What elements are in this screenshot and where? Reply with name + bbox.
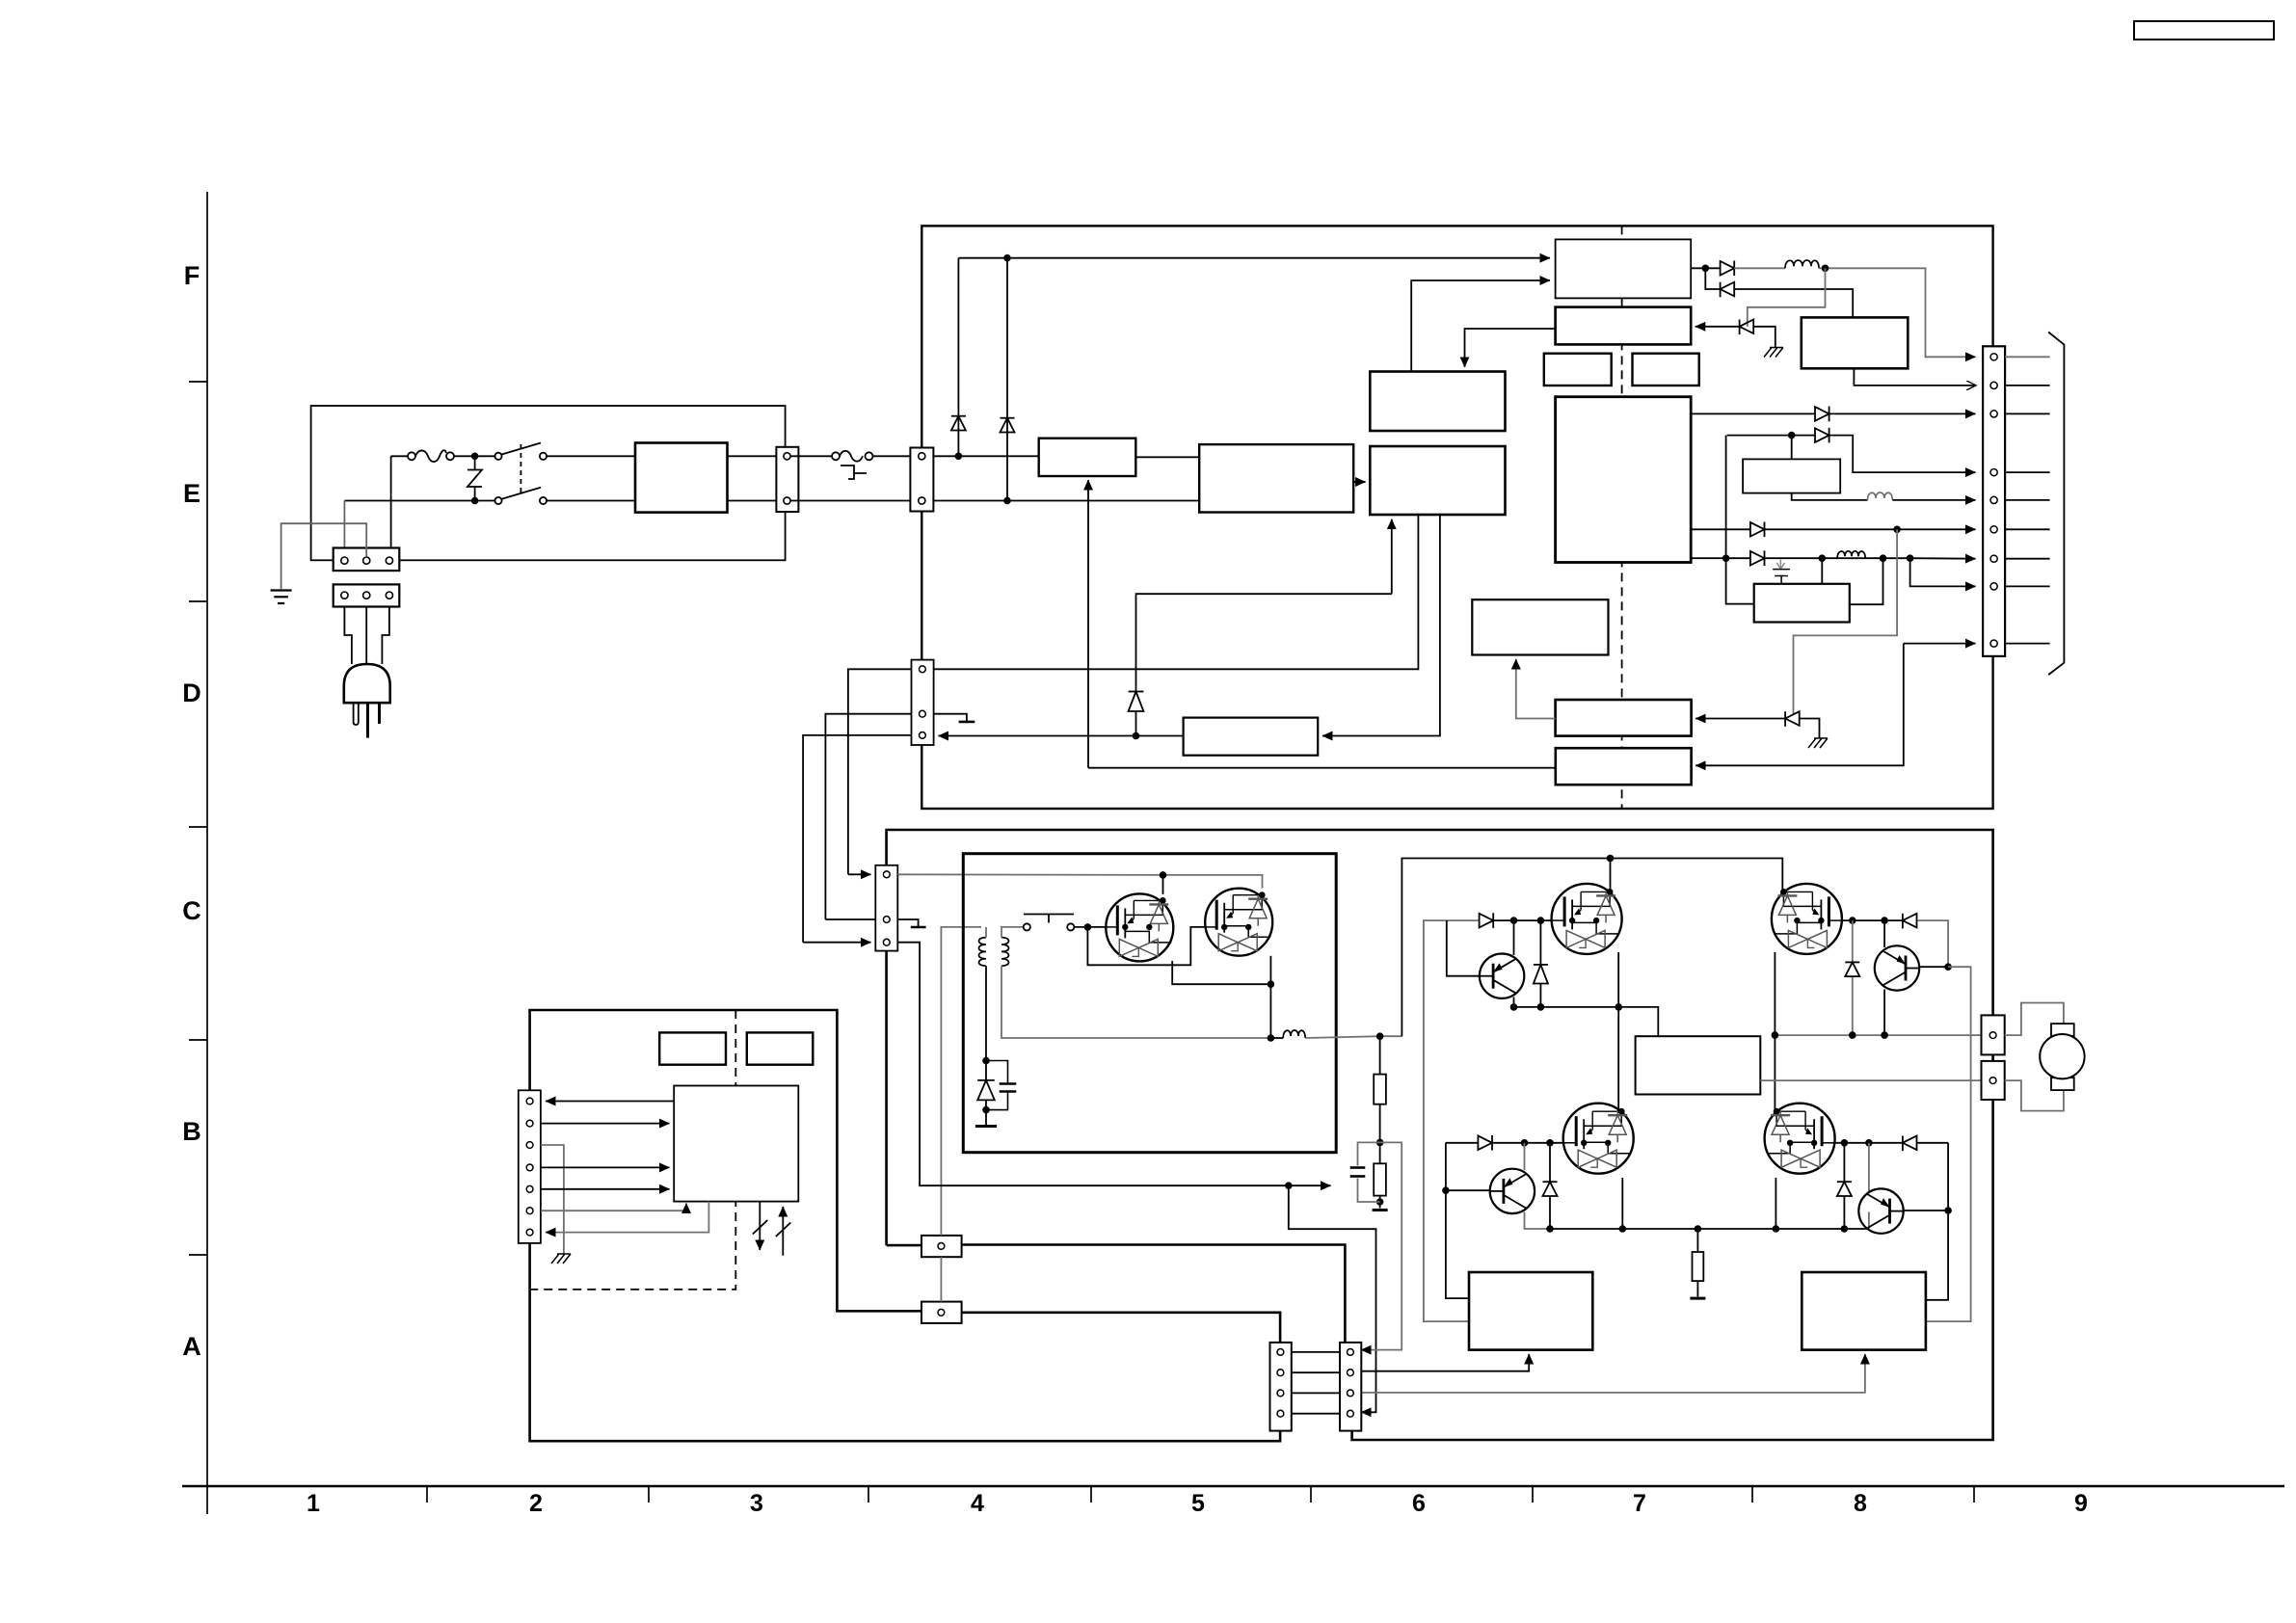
svg-text:8: 8 bbox=[1854, 1490, 1867, 1517]
wire R2 to gnd bbox=[1379, 1196, 1381, 1209]
chassis ground g3 bbox=[551, 1254, 571, 1264]
motor block box bbox=[1636, 1036, 1761, 1094]
switch S1b bbox=[494, 488, 547, 504]
box V (right top thick box) bbox=[1802, 317, 1909, 368]
antisat diode D14 bbox=[1543, 1143, 1558, 1229]
wire node A gray right to feedback bbox=[1361, 1142, 1402, 1349]
small box K2 bbox=[747, 1032, 814, 1064]
diode D19 (up) on feedback bbox=[1129, 692, 1144, 712]
wire left phase rail bbox=[1514, 1007, 1659, 1036]
node dot BL base bbox=[1442, 1186, 1450, 1194]
connector C1 bbox=[921, 1236, 962, 1257]
wire filter to J1 bottom bbox=[728, 500, 785, 502]
wire rail to B+ riser gray bbox=[1305, 1036, 1402, 1038]
wire box X right riser bbox=[1850, 558, 1883, 604]
motor brush top bbox=[2051, 1024, 2074, 1036]
wire J1 to J3 bottom bbox=[790, 500, 910, 502]
control board outline bbox=[530, 1010, 1281, 1441]
wire conn row3 to right driver arrow gray bbox=[1358, 1354, 1865, 1393]
node dot feedback/row junction bbox=[1133, 732, 1140, 740]
connector CN3 bbox=[1983, 346, 2005, 656]
node dot gate node bbox=[1084, 923, 1092, 931]
wire B+ rail bbox=[1611, 859, 1783, 894]
box B (drive B) bbox=[1556, 748, 1692, 785]
wire gate row top-left bbox=[1493, 919, 1551, 921]
svg-text:E: E bbox=[183, 479, 200, 508]
wire PFC top rail bbox=[958, 257, 1550, 259]
switch gang dashed link bbox=[520, 444, 521, 495]
wire Q7 drain drop bbox=[1821, 558, 1823, 584]
4pin connector right bbox=[1340, 1343, 1361, 1431]
wire earth gray bbox=[281, 523, 367, 589]
wire CN4 pin1 gray to FET drains bbox=[897, 874, 1262, 888]
box C (control upper-left) bbox=[1370, 372, 1505, 432]
bottom driver box left bbox=[1469, 1272, 1592, 1350]
plug prong left bbox=[354, 703, 359, 725]
wire D4 branch bbox=[1705, 268, 1720, 289]
wire CN2 pin3 to plug bbox=[382, 607, 389, 665]
line filter block bbox=[635, 443, 728, 513]
node dot D2 top bbox=[1003, 254, 1011, 262]
wire motor loop bottom gray bbox=[2005, 1080, 2064, 1111]
wire gate row bottom-left bbox=[1492, 1142, 1562, 1144]
wire box A arrow from D10 bbox=[1695, 718, 1785, 720]
resistor R3 shunt bbox=[1693, 1252, 1704, 1281]
gnd bar stub J2 bbox=[959, 721, 975, 724]
row tick F/E bbox=[189, 381, 207, 383]
wire B+ riser bbox=[1402, 859, 1610, 1037]
node dot phase TL e bbox=[1510, 1003, 1518, 1011]
node dot row6 bbox=[1893, 526, 1901, 534]
node dot row7 after L3 bbox=[1880, 554, 1887, 562]
wire R1 to R2 bbox=[1379, 1104, 1381, 1164]
wires between 4pin connectors bbox=[1292, 1352, 1340, 1414]
wire shunt top bbox=[1696, 1229, 1698, 1252]
wire right source rail to motor pin1 bbox=[1775, 1034, 1981, 1036]
node dot BR base bbox=[1944, 1207, 1952, 1214]
wire J2 pin2 stub bbox=[934, 714, 967, 722]
wire conn row9 bbox=[1904, 643, 1976, 645]
connector J2 (psu lower-left) bbox=[912, 660, 934, 745]
node dot bottom varistor bbox=[471, 497, 479, 505]
wire CN2 pin1 to plug bbox=[344, 607, 352, 665]
wire filter to J1 top bbox=[728, 455, 785, 457]
row tick D/C bbox=[189, 826, 207, 828]
wire TR1 right top lead to switch gray bbox=[1001, 927, 1024, 938]
mosfet Q1 (inner converter left) bbox=[1106, 893, 1173, 961]
4pin connector left bbox=[1270, 1343, 1292, 1431]
wire row7 riser bbox=[1725, 436, 1727, 559]
node dot TL antisat bbox=[1537, 917, 1545, 924]
wire long box to connector arrow bbox=[939, 735, 1184, 737]
cable brace bbox=[2048, 333, 2064, 676]
wire T2 to box C arrow bbox=[1465, 329, 1556, 367]
driver board outline bbox=[887, 830, 1993, 1440]
box W (right mid regulator) bbox=[1743, 459, 1840, 492]
gnd bar shunt bbox=[1690, 1297, 1705, 1300]
antisat diode D16 bbox=[1845, 920, 1859, 1035]
wire CN4 pin2 stub bbox=[897, 919, 918, 927]
row tick B/A bbox=[189, 1254, 207, 1256]
plug prong right bbox=[378, 703, 381, 724]
wire bottom-left gate row bbox=[1446, 1142, 1479, 1144]
col tick 1/2 bbox=[426, 1486, 428, 1503]
node dot TL collector bbox=[1510, 917, 1518, 924]
inner converter box bbox=[963, 854, 1336, 1153]
diode D15 left bbox=[1903, 914, 1917, 929]
row tick C/B bbox=[189, 1039, 207, 1041]
wire W top drop bbox=[1791, 436, 1793, 460]
node dot TR collector bbox=[1881, 917, 1888, 924]
wire switch to filter transformer bottom bbox=[547, 500, 635, 502]
wire box B arrow from conn row9 bbox=[1695, 644, 1904, 766]
node dot B+ left FET bbox=[1607, 855, 1615, 863]
wire D3 to coil gray bbox=[1734, 267, 1785, 269]
connector J1 bbox=[776, 447, 798, 512]
diode D5 left bbox=[1740, 320, 1754, 335]
wire left phase to bottom FET drain bbox=[1617, 1007, 1619, 1111]
node dot phase antisat bbox=[1537, 1003, 1545, 1011]
title box top right bbox=[2134, 21, 2274, 40]
bottom driver box right bbox=[1802, 1272, 1926, 1350]
thermal protector symbol bbox=[841, 466, 867, 479]
wire motor block to pin2 gray bbox=[1760, 1079, 1981, 1081]
control board dashed line bbox=[530, 1010, 736, 1290]
wire gate row top-right bbox=[1842, 919, 1903, 921]
small box S1 bbox=[1544, 354, 1612, 386]
wire bottom-right gate row bbox=[1916, 1142, 1948, 1144]
wire BL FET source drop bbox=[1621, 1178, 1623, 1229]
wire TR1 left bottom lead bbox=[985, 966, 987, 1060]
wire fuse drop to CN1 pin3 bbox=[390, 456, 392, 548]
col tick 8/9 bbox=[1973, 1486, 1975, 1503]
wire gate row bottom-right bbox=[1833, 1142, 1903, 1144]
svg-text:9: 9 bbox=[2074, 1490, 2088, 1517]
diode D9 right bbox=[1750, 550, 1765, 566]
svg-text:5: 5 bbox=[1191, 1490, 1205, 1517]
inductor L4 bbox=[1283, 1030, 1305, 1038]
wire box D feedback to long box row bbox=[1391, 519, 1393, 595]
wire cap bottom gray bbox=[1358, 1179, 1380, 1203]
gnd bar TR1 bbox=[975, 1125, 997, 1128]
node dot zener top bbox=[982, 1057, 990, 1065]
wire row6 gray branch bbox=[1794, 529, 1898, 714]
pushbutton SW2 bbox=[1024, 915, 1075, 931]
AC loop outer box bbox=[311, 406, 786, 560]
wire BL collector drop gray bbox=[1524, 1143, 1526, 1170]
wire feedback horizontal bbox=[1136, 594, 1392, 735]
node dot rail BR source bbox=[1773, 1225, 1780, 1233]
node dot BR collector bbox=[1865, 1139, 1873, 1147]
svg-text:F: F bbox=[184, 261, 200, 290]
svg-text:6: 6 bbox=[1412, 1490, 1426, 1517]
wire FET sources to rail bbox=[1172, 961, 1270, 1038]
wire CN4 pin3 arrow bbox=[803, 942, 870, 944]
wire CN4 pin3 to sense line bbox=[897, 943, 1289, 1185]
svg-text:3: 3 bbox=[750, 1490, 763, 1517]
wire pin5 to IC arrow bbox=[541, 1188, 670, 1190]
wire TL emitter drop bbox=[1513, 998, 1515, 1007]
wire W bottom to coil row5 bbox=[1792, 493, 1868, 500]
wire motor loop top gray bbox=[2005, 1003, 2064, 1036]
diode D13 right bbox=[1478, 1135, 1492, 1151]
plug prong middle bbox=[366, 703, 369, 737]
AC plug body bbox=[344, 664, 390, 703]
wire F2 to J3 bbox=[873, 455, 911, 457]
wire TR collector drop bbox=[1883, 920, 1885, 947]
wire pin6 to IC bottom gray bbox=[541, 1204, 686, 1211]
svg-text:A: A bbox=[182, 1332, 201, 1361]
diode D3 right bbox=[1721, 261, 1735, 277]
col tick 4/5 bbox=[1090, 1486, 1092, 1503]
svg-text:1: 1 bbox=[307, 1490, 320, 1517]
diode D8 right bbox=[1750, 522, 1765, 538]
inductor L2 bbox=[1868, 492, 1893, 500]
switch S1a bbox=[494, 443, 547, 460]
node dot row7 mid bbox=[1819, 554, 1827, 562]
wire U1 row6 out bbox=[1691, 528, 1975, 530]
capacitor C5 bbox=[986, 1061, 1016, 1110]
node dot phase FET source bbox=[1615, 1003, 1622, 1011]
wire J3 pin2 to rectifier bbox=[933, 500, 1199, 502]
wire sense arrow to cap node bbox=[1289, 1184, 1331, 1186]
wire PFC drive up-arrow bbox=[1087, 480, 1089, 768]
diode D10 left bbox=[1785, 711, 1800, 727]
connector CN1 bbox=[334, 548, 400, 572]
diode D11 right bbox=[1480, 913, 1494, 928]
mosfet Q4 (H-bridge top-right) bbox=[1772, 884, 1842, 954]
wire BR collector drop gray bbox=[1868, 1143, 1870, 1191]
antisat diode D18 bbox=[1837, 1143, 1852, 1229]
wire left top FET drain drop bbox=[1610, 859, 1612, 893]
sheet border bottom line bbox=[182, 1485, 2284, 1487]
gnd bar stub CN4 bbox=[911, 926, 926, 929]
box D (DC-DC lower-left) bbox=[1370, 446, 1505, 515]
small box K1 bbox=[659, 1032, 726, 1064]
wire bottom source rail bbox=[1550, 1228, 1869, 1230]
gnd bar divider bbox=[1373, 1209, 1388, 1211]
wire D4 to box V bbox=[1734, 289, 1853, 317]
node dot shunt bbox=[1695, 1225, 1702, 1233]
wire BR gate feed riser bbox=[1926, 1143, 1948, 1300]
IC U2 box bbox=[674, 1086, 798, 1202]
wire rail inner segment bbox=[1270, 1037, 1283, 1039]
bus arrow down with slash bbox=[753, 1202, 768, 1250]
wire BR emitter drop gray bbox=[1868, 1212, 1870, 1230]
transistor Q10 (driver bottom-left) bbox=[1490, 1169, 1535, 1213]
node dot rail gnd tap bbox=[1376, 1032, 1384, 1040]
inductor L1 bbox=[1785, 260, 1819, 268]
box X (right low regulator) bbox=[1754, 584, 1850, 623]
wire J3 pin1 to filter box bbox=[933, 455, 1038, 457]
wire box V bottom to conn row2 bbox=[1854, 368, 1975, 386]
motor connector pin1 bbox=[1982, 1015, 2005, 1054]
wire bottom-left gate feed riser bbox=[1446, 1143, 1469, 1298]
wire U1 row W bbox=[1727, 435, 1815, 437]
wire pin4 to IC arrow bbox=[541, 1166, 670, 1168]
diode D7 right bbox=[1815, 428, 1829, 443]
wire CN4 pin1 arrow bbox=[848, 873, 871, 875]
mosfet Q6 (H-bridge bottom-right) bbox=[1765, 1104, 1835, 1174]
wire D10 anode to gnd bbox=[1800, 719, 1820, 739]
wire vertical diode branch 2 bbox=[1006, 258, 1008, 501]
connector CN4 (3pin on driver board edge) bbox=[875, 865, 897, 951]
wire U1 row7 out bbox=[1691, 557, 1909, 559]
fuse F1 bbox=[408, 450, 454, 462]
wire drain drop left FET bbox=[1162, 875, 1164, 894]
box A (drive A) bbox=[1556, 700, 1692, 736]
resistor R1 bbox=[1374, 1075, 1386, 1104]
wire L1 to riser gray bbox=[1819, 268, 1976, 357]
wire box B to PFC riser bbox=[1088, 767, 1556, 769]
box E (aux reg) bbox=[1472, 599, 1608, 654]
mosfet Q3 (H-bridge top-left) bbox=[1552, 884, 1622, 954]
wire TR1 right bottom to output rail gray bbox=[1001, 966, 1270, 1038]
fuse F2 bbox=[832, 451, 873, 462]
diode D4 left bbox=[1721, 282, 1735, 298]
svg-text:B: B bbox=[182, 1117, 201, 1146]
wire top-right gate feed gray bbox=[1916, 920, 1948, 967]
wire box D to long box arrow bbox=[1322, 515, 1440, 736]
wire U1 row3 out bbox=[1691, 412, 1975, 414]
box T2 bbox=[1556, 307, 1692, 345]
node dot rail BR antisat bbox=[1841, 1225, 1849, 1233]
wire BL base bbox=[1446, 1189, 1490, 1191]
wire TR feed jog down bbox=[1926, 967, 1971, 1321]
resistor R2 bbox=[1374, 1163, 1386, 1195]
wire J2 pin3 left down bbox=[803, 735, 911, 943]
diode D6 right bbox=[1815, 407, 1829, 422]
col tick 2/3 bbox=[648, 1486, 650, 1503]
node dot top varistor bbox=[471, 453, 479, 461]
node dot row7 left bbox=[1722, 554, 1730, 562]
wire J1 to fuse F2 bbox=[790, 455, 832, 457]
node dot divider mid bbox=[1376, 1139, 1384, 1147]
node dot TR base node bbox=[1944, 963, 1952, 971]
wire shunt bottom bbox=[1696, 1281, 1698, 1296]
wire varistor to switch bottom bbox=[478, 500, 494, 502]
wire sense branch to conn row4 bbox=[1289, 1185, 1376, 1412]
wire right FET source drop bbox=[1269, 956, 1271, 984]
capacitor C6 bbox=[1350, 1168, 1366, 1177]
mosfet Q5 (H-bridge bottom-left) bbox=[1563, 1104, 1634, 1174]
wire pin3 to gnd gray bbox=[541, 1145, 564, 1254]
node dot W top bbox=[1788, 432, 1796, 439]
svg-text:D: D bbox=[182, 678, 201, 707]
mosfet Q2 (inner converter right) bbox=[1205, 889, 1272, 956]
wire BR FET source drop bbox=[1775, 1178, 1776, 1229]
wire BL emitter drop gray bbox=[1525, 1212, 1551, 1230]
motor brush bottom bbox=[2051, 1078, 2074, 1090]
node dot rail mid bbox=[1268, 1034, 1275, 1042]
col tick 5/6 bbox=[1310, 1486, 1312, 1503]
rectifier box bbox=[1199, 444, 1353, 512]
earth ground symbol bbox=[271, 591, 292, 604]
zener diode ZD1 bbox=[977, 1061, 995, 1126]
wire gray sense to D5 bbox=[1748, 268, 1826, 327]
PFC filter box bbox=[1039, 439, 1136, 476]
wire IC bottom to pin7 gray bbox=[546, 1202, 708, 1233]
gate transformer TR1 bbox=[979, 938, 1009, 967]
wire SW2 to gates bbox=[1074, 926, 1106, 928]
wire rectifier to DC box arrow bbox=[1353, 481, 1365, 483]
wires CN3 to cable bbox=[2005, 356, 2050, 358]
motor connector pin2 bbox=[1982, 1061, 2005, 1100]
node dot D1 anode bbox=[955, 453, 963, 461]
wire TR emitter drop bbox=[1883, 990, 1885, 1036]
svg-text:7: 7 bbox=[1633, 1490, 1646, 1517]
wire C1 up to transformer primary gray bbox=[941, 927, 981, 1236]
transistor Q8 (driver top-left) bbox=[1480, 954, 1524, 998]
wire J2 pin1 left down bbox=[848, 669, 912, 874]
node dot BR antisat bbox=[1841, 1139, 1849, 1147]
wire conn row2 to left driver arrow bbox=[1358, 1354, 1530, 1371]
varistor Z1 bbox=[467, 456, 482, 500]
svg-text:4: 4 bbox=[971, 1490, 984, 1517]
wire T2 arrow from D5 bbox=[1695, 326, 1740, 328]
diode D17 left bbox=[1903, 1136, 1917, 1152]
row tick E/D bbox=[189, 600, 207, 602]
connector CN2 bbox=[334, 584, 400, 606]
node dot zener bottom bbox=[982, 1106, 990, 1114]
wire filter to rectifier bbox=[1135, 456, 1199, 458]
transistor Q11 (driver bottom-right) bbox=[1858, 1188, 1903, 1233]
node dot drain wire bbox=[1160, 871, 1167, 879]
node dot BL collector bbox=[1521, 1139, 1529, 1147]
connector J3 bbox=[910, 448, 933, 512]
wire BR base bbox=[1904, 1210, 1949, 1211]
node dot R2 bottom bbox=[1376, 1198, 1384, 1206]
wire row7 to conn arrow bbox=[1910, 557, 1976, 560]
antisat diode D12 bbox=[1534, 920, 1548, 1007]
wire pin2 to IC arrow bbox=[541, 1123, 670, 1125]
diode D1 (up) bbox=[951, 416, 966, 431]
wire CN2 pin2 to plug bbox=[365, 607, 367, 665]
transistor Q9 (driver top-right) bbox=[1875, 945, 1919, 990]
svg-text:2: 2 bbox=[529, 1490, 543, 1517]
wire J2 pin1 right riser to box D bbox=[934, 515, 1419, 669]
wire CN4 pin2 in bbox=[825, 918, 875, 920]
wire row8 bbox=[1910, 558, 1976, 586]
wire D5 anode to gnd bbox=[1753, 327, 1775, 347]
node dot right rail emitter bbox=[1881, 1031, 1888, 1039]
wire top-left base riser bbox=[1447, 920, 1480, 976]
box T1 (top PWM box) bbox=[1556, 239, 1692, 298]
long box (shunt reg) bbox=[1184, 718, 1319, 756]
wire box X left riser bbox=[1726, 558, 1754, 603]
node dot L1 out bbox=[1822, 265, 1829, 273]
chassis ground g1 bbox=[1764, 348, 1783, 358]
node dot rail BL source bbox=[1619, 1225, 1627, 1233]
wire node A gray left to cap bbox=[1358, 1142, 1380, 1165]
wire divider top bbox=[1379, 1036, 1381, 1074]
chassis ground g2 bbox=[1808, 738, 1828, 748]
PSU board outline box bbox=[921, 226, 1992, 809]
wire J2 pin2 left down bbox=[825, 714, 911, 919]
col tick 7/8 bbox=[1751, 1486, 1753, 1503]
wire D7 to conn row4 bbox=[1829, 436, 1976, 473]
small box S2 bbox=[1633, 354, 1699, 386]
node dot right rail FET bbox=[1772, 1031, 1779, 1039]
wire vertical diode branch 1 bbox=[957, 258, 959, 457]
diode D2 (up) bbox=[1001, 418, 1015, 433]
wire box C to T1 row2 bbox=[1411, 280, 1550, 372]
wire T1 out bbox=[1691, 267, 1720, 269]
wire switch to filter transformer top bbox=[547, 455, 635, 457]
node dot source link bbox=[1268, 980, 1275, 988]
sheet border left line bbox=[206, 192, 208, 1514]
motor M1 bbox=[2040, 1034, 2084, 1078]
